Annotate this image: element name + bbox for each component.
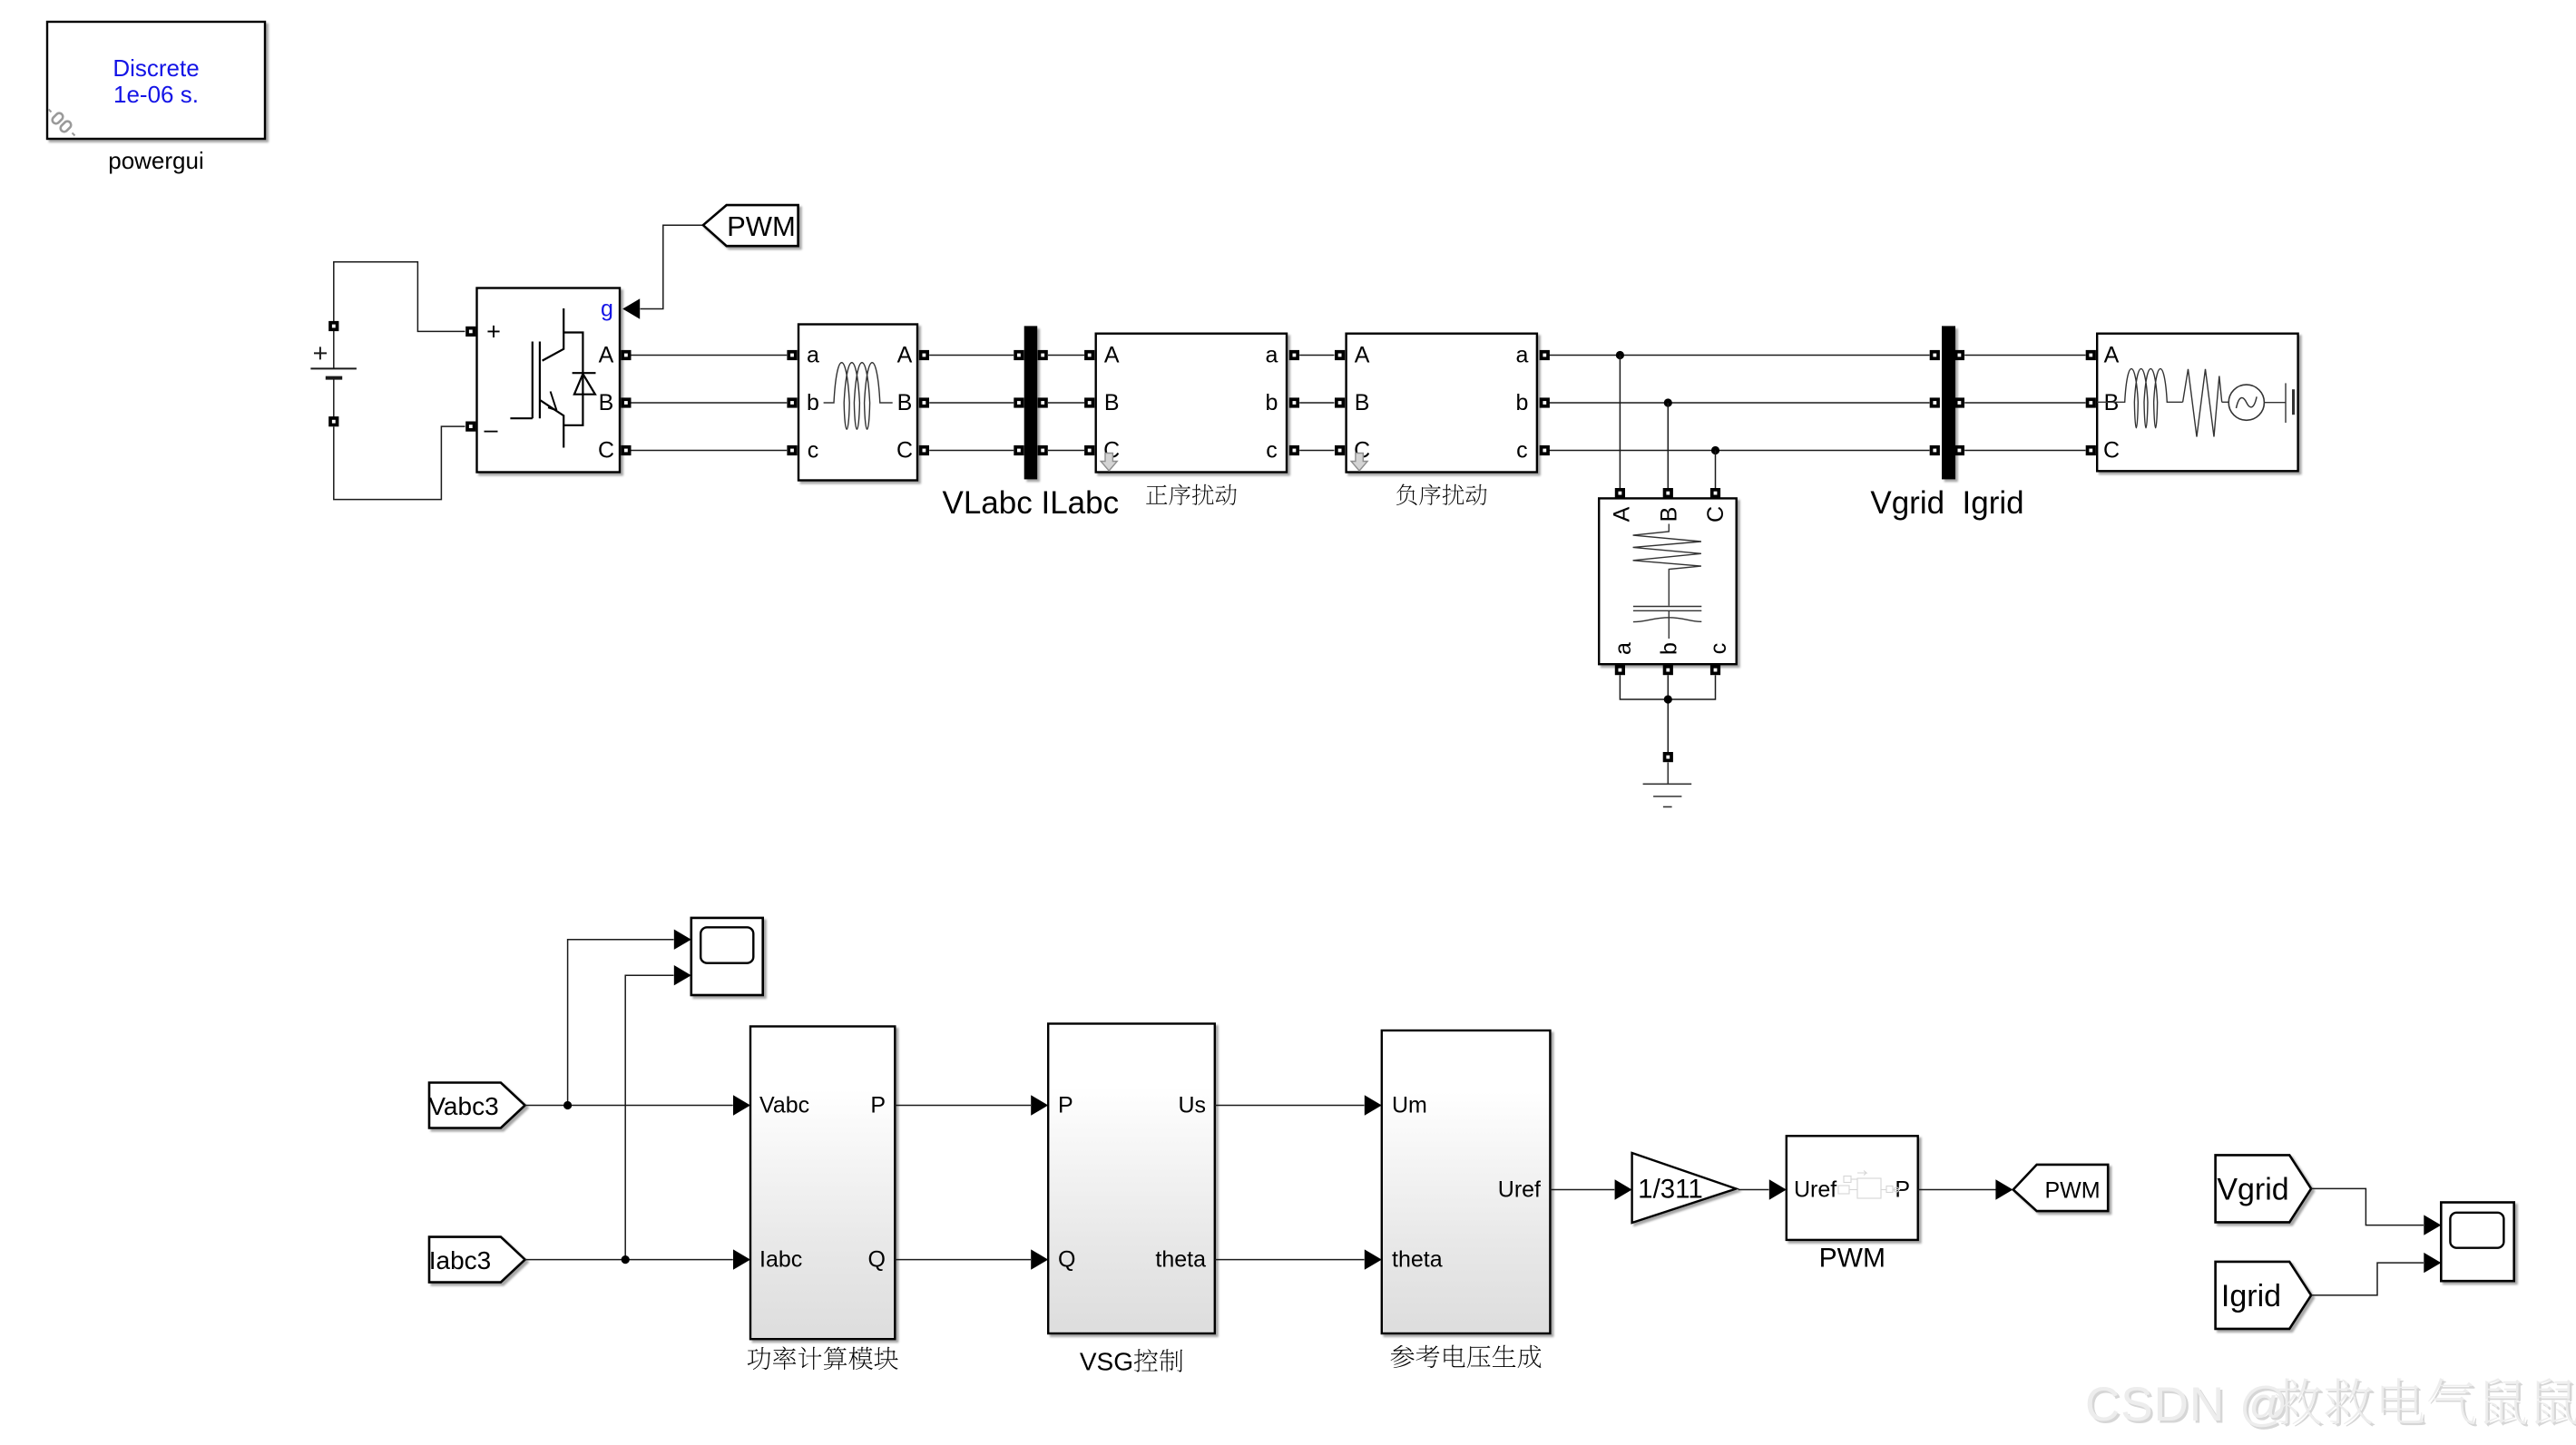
- wire P: [895, 1105, 1031, 1107]
- svg-text:B: B: [1104, 390, 1120, 415]
- node phase A junction: [1616, 351, 1624, 359]
- inductor coil icon: [824, 363, 893, 430]
- inductor B out port: [919, 397, 929, 407]
- wire Q: [895, 1259, 1031, 1261]
- inductor b port: [787, 397, 797, 407]
- wire bridge B to inductor b: [631, 402, 787, 404]
- svg-text:theta: theta: [1392, 1247, 1443, 1273]
- inductor a port: [787, 350, 797, 360]
- grid A port: [2086, 350, 2096, 360]
- fuxu (negative-seq disturbance) label: [1396, 484, 1487, 506]
- three-phase inductor block: [787, 325, 929, 481]
- zhengxu (positive-seq disturbance) label: [1146, 484, 1237, 506]
- wire drop A to load: [1619, 356, 1621, 489]
- VSG Q input arrow: [1031, 1249, 1048, 1269]
- svg-text:Uref: Uref: [1498, 1177, 1541, 1203]
- wire VLabc bar to zhengxu A: [1048, 355, 1084, 356]
- Vabc input arrow: [733, 1095, 750, 1115]
- ground symbol: [1643, 762, 1692, 806]
- PWM subsystem block: [1769, 1136, 1918, 1273]
- svg-text:c: c: [808, 438, 819, 464]
- gain 1/311: [1615, 1153, 1737, 1223]
- wire Vgrid bar to grid B: [1964, 402, 2085, 404]
- DC voltage source battery: [310, 331, 357, 417]
- svg-text:C: C: [2103, 438, 2120, 464]
- fuxu (negative-seq disturbance) B in port: [1335, 397, 1345, 407]
- PWM goto tag: [1995, 1165, 2108, 1211]
- wire bridge C to inductor c: [631, 450, 787, 452]
- Iabc input arrow: [733, 1249, 750, 1269]
- fuxu (negative-seq disturbance) subsystem block: [1335, 334, 1550, 505]
- wire Us: [1215, 1105, 1365, 1107]
- svg-text:B: B: [897, 390, 913, 415]
- IGBT universal bridge block: [465, 288, 640, 473]
- svg-text:Igrid: Igrid: [2221, 1279, 2281, 1313]
- svg-text:Vabc3: Vabc3: [428, 1092, 498, 1120]
- zhengxu (positive-seq disturbance) b out port: [1289, 397, 1299, 407]
- load c bottom port: [1710, 665, 1720, 675]
- wire load b down to ground: [1667, 675, 1669, 752]
- g input arrow: [622, 298, 640, 318]
- wire zhengxu c to fuxu C: [1299, 450, 1334, 452]
- svg-text:Um: Um: [1392, 1093, 1427, 1118]
- svg-text:B: B: [1656, 507, 1681, 522]
- VSG P input arrow: [1031, 1095, 1048, 1115]
- fuxu (negative-seq disturbance) a out port: [1540, 350, 1550, 360]
- load capacitor: [1633, 606, 1701, 608]
- battery + port: [328, 321, 338, 331]
- svg-text:1/311: 1/311: [1638, 1174, 1703, 1204]
- scope in2 arrow: [674, 965, 691, 985]
- ground port: [1663, 752, 1673, 762]
- scope block (P,Q): [674, 918, 763, 995]
- wire Iabc3 branch to scope: [625, 975, 673, 1259]
- svg-text:Uref: Uref: [1794, 1177, 1837, 1203]
- grid C port: [2086, 445, 2096, 455]
- inductor A out port: [919, 350, 929, 360]
- CSDN watermark: [2088, 1381, 2576, 1434]
- svg-text:a: a: [1611, 642, 1636, 655]
- PWM Uref input arrow: [1769, 1179, 1787, 1199]
- svg-text:A: A: [1104, 343, 1120, 368]
- svg-text:1e-06 s.: 1e-06 s.: [113, 81, 199, 108]
- wire zhengxu b to fuxu B: [1299, 402, 1334, 404]
- svg-text:Q: Q: [1058, 1247, 1075, 1273]
- wire inductor B to VLabc bar: [929, 402, 1014, 404]
- svg-text:a: a: [1515, 343, 1528, 368]
- zhengxu (positive-seq disturbance) badge arrow: [1101, 454, 1117, 472]
- svg-text:C: C: [1703, 506, 1729, 522]
- svg-text:Iabc: Iabc: [759, 1247, 802, 1273]
- three-phase grid source block: [2086, 334, 2298, 472]
- load B top port: [1663, 488, 1673, 498]
- load b bottom port: [1663, 665, 1673, 675]
- Iabc3 from-tag: [429, 1237, 525, 1283]
- svg-text:Discrete: Discrete: [113, 54, 199, 82]
- wire VLabc bar to zhengxu C: [1048, 450, 1084, 452]
- wire fuxu b to Vgrid bar: [1549, 402, 1930, 404]
- wire Vgrid bar to grid C: [1964, 450, 2085, 452]
- node neutral junction: [1664, 695, 1672, 703]
- gonglv label: [748, 1346, 898, 1370]
- wire Vabc3 branch to scope: [568, 940, 674, 1106]
- node phase C junction: [1711, 446, 1719, 454]
- gain input arrow: [1615, 1179, 1632, 1199]
- svg-text:Vabc: Vabc: [759, 1093, 809, 1118]
- Vabc3 from-tag: [428, 1083, 524, 1128]
- theta input arrow: [1365, 1249, 1382, 1269]
- svg-text:A: A: [1355, 343, 1370, 368]
- cankao label: [1391, 1345, 1542, 1369]
- wire drop B to load: [1667, 403, 1669, 488]
- wire theta: [1215, 1259, 1365, 1261]
- svg-text:–: –: [484, 416, 497, 444]
- svg-text:b: b: [1515, 390, 1528, 415]
- wire VLabc bar to zhengxu B: [1048, 402, 1084, 404]
- zhengxu (positive-seq disturbance) C in port: [1084, 445, 1094, 455]
- node phase B junction: [1664, 398, 1672, 406]
- load A top port: [1615, 488, 1625, 498]
- powergui block: [47, 22, 265, 174]
- wire fuxu c to Vgrid bar: [1549, 450, 1930, 452]
- svg-text:P: P: [1058, 1093, 1073, 1118]
- wire inductor A to VLabc bar: [929, 355, 1014, 356]
- load resistor zigzag: [1633, 524, 1701, 606]
- svg-text:P: P: [870, 1093, 886, 1118]
- wire load a down: [1620, 675, 1715, 699]
- svg-text:Q: Q: [868, 1247, 886, 1273]
- svg-text:c: c: [1706, 643, 1731, 655]
- svg-text:c: c: [1266, 438, 1278, 464]
- zhengxu (positive-seq disturbance) c out port: [1289, 445, 1299, 455]
- svg-text:C: C: [598, 438, 614, 464]
- zhengxu (positive-seq disturbance) A in port: [1084, 350, 1094, 360]
- svg-text:a: a: [1266, 343, 1278, 368]
- PWM from-tag: [703, 205, 798, 246]
- wire gain to PWM block: [1739, 1189, 1769, 1191]
- battery - port: [328, 416, 338, 426]
- svg-text:VSG: VSG: [1080, 1348, 1133, 1376]
- PWM tag input arrow: [1995, 1179, 2013, 1199]
- reference voltage gen (cankao) subsystem block: [1365, 1030, 1551, 1368]
- wire fuxu a to Vgrid bar: [1549, 355, 1930, 356]
- svg-text:Vgrid Igrid: Vgrid Igrid: [1870, 485, 2023, 521]
- inductor C out port: [919, 445, 929, 455]
- svg-text:B: B: [1355, 390, 1370, 415]
- wire battery+ to bridge+: [334, 262, 465, 332]
- fuxu (negative-seq disturbance) b out port: [1540, 397, 1550, 407]
- grid B port: [2086, 397, 2096, 407]
- scope in1 arrow: [674, 930, 691, 950]
- svg-text:A: A: [2104, 343, 2120, 368]
- node Iabc3 branch: [622, 1255, 630, 1264]
- svg-text:A: A: [1609, 506, 1634, 522]
- wire bridge A to inductor a: [631, 355, 787, 356]
- wire PWM tag to gate: [641, 225, 703, 308]
- svg-text:Iabc3: Iabc3: [429, 1246, 492, 1274]
- fuxu (negative-seq disturbance) badge arrow: [1351, 454, 1367, 472]
- wire drop C to load: [1715, 451, 1717, 489]
- fuxu (negative-seq disturbance) c out port: [1540, 445, 1550, 455]
- IGBT and diode icon: [510, 308, 595, 448]
- fuxu (negative-seq disturbance) C in port: [1335, 445, 1345, 455]
- svg-text:A: A: [599, 343, 614, 368]
- PWM thumbnail mini diagram: [1838, 1171, 1900, 1199]
- three-phase RLC load block: [1599, 488, 1737, 675]
- svg-text:c: c: [1516, 438, 1528, 464]
- bridge B port: [621, 397, 631, 407]
- zhengxu (positive-seq disturbance) a out port: [1289, 350, 1299, 360]
- scope2 in2 arrow: [2424, 1253, 2441, 1273]
- svg-text:B: B: [599, 390, 614, 415]
- grid source icon: coil, resistor, AC source: [2097, 369, 2293, 437]
- load C top port: [1710, 488, 1720, 498]
- svg-text:A: A: [897, 343, 913, 368]
- wire Vgrid bar to grid A: [1964, 355, 2085, 356]
- wire inductor C to VLabc bar: [929, 450, 1014, 452]
- wire Iabc3 to Iabc: [525, 1259, 733, 1261]
- inductor c port: [787, 445, 797, 455]
- wire battery- to bridge-: [334, 426, 465, 499]
- svg-text:g: g: [601, 297, 613, 322]
- svg-text:C: C: [896, 438, 913, 464]
- Um input arrow: [1365, 1095, 1382, 1115]
- svg-text:+: +: [486, 317, 501, 345]
- svg-text:b: b: [1266, 390, 1278, 415]
- svg-text:PWM: PWM: [1819, 1244, 1885, 1274]
- svg-text:Vgrid: Vgrid: [2217, 1172, 2288, 1206]
- wire Vabc3 to Vabc: [525, 1105, 733, 1107]
- svg-text:PWM: PWM: [727, 210, 796, 242]
- fuxu (negative-seq disturbance) A in port: [1335, 350, 1345, 360]
- svg-text:VLabc ILabc: VLabc ILabc: [943, 485, 1120, 521]
- svg-text:a: a: [807, 343, 819, 368]
- wire Uref to gain: [1550, 1189, 1614, 1191]
- power calculation (gonglv) subsystem block: [733, 1027, 898, 1371]
- zhengxu (positive-seq disturbance) B in port: [1084, 397, 1094, 407]
- scope2 block (Vgrid,Igrid): [2424, 1203, 2513, 1282]
- bridge + port: [465, 327, 475, 337]
- wire PWM P to tag: [1918, 1189, 1996, 1191]
- bridge A port: [621, 350, 631, 360]
- wire zhengxu a to fuxu A: [1299, 355, 1334, 356]
- svg-text:PWM: PWM: [2044, 1178, 2100, 1204]
- bridge - port: [465, 422, 475, 432]
- svg-text:powergui: powergui: [108, 147, 204, 174]
- wire Igrid to scope2: [2311, 1263, 2424, 1295]
- svg-text:CSDN @: CSDN @: [2085, 1378, 2289, 1431]
- VSG control subsystem block: [1031, 1024, 1215, 1376]
- Vgrid Igrid measurement bar: [1870, 326, 2023, 521]
- svg-text:theta: theta: [1155, 1247, 1206, 1273]
- VLabc ILabc measurement bar: [943, 326, 1120, 521]
- wire Vgrid to scope2: [2311, 1188, 2424, 1225]
- svg-text:Us: Us: [1178, 1093, 1206, 1118]
- Vgrid from-tag: [2216, 1155, 2312, 1222]
- bridge C port: [621, 445, 631, 455]
- node Vabc3 branch: [563, 1101, 572, 1109]
- zhengxu (positive-seq disturbance) subsystem block: [1084, 334, 1299, 505]
- Igrid from-tag: [2216, 1262, 2312, 1329]
- svg-text:b: b: [807, 390, 819, 415]
- scope2 in1 arrow: [2424, 1215, 2441, 1235]
- load a bottom port: [1615, 665, 1625, 675]
- svg-text:b: b: [1656, 642, 1681, 655]
